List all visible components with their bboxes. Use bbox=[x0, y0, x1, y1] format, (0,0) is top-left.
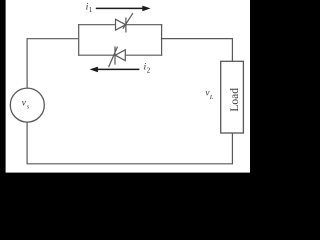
wire: box left edge bbox=[78, 24, 80, 56]
source V1 (vs) bbox=[10, 88, 44, 122]
current arrow i2 bbox=[90, 67, 140, 73]
thyristor T1 (top, conducts left to right) bbox=[116, 13, 133, 32]
wire: top-right horizontal from box to right rail bbox=[162, 38, 233, 40]
svg-text:2: 2 bbox=[147, 68, 151, 75]
load bbox=[221, 61, 244, 133]
white page bbox=[6, 0, 250, 173]
wire: right vertical below load bbox=[231, 133, 233, 164]
wire: bottom rail left of thyristor T2 bbox=[78, 54, 115, 56]
svg-text:1: 1 bbox=[89, 7, 92, 14]
svg-text:Load: Load bbox=[229, 88, 241, 112]
wire: top rail right of thyristor T1 bbox=[126, 24, 162, 26]
current arrow i1 bbox=[96, 6, 151, 12]
wire: right vertical above load bbox=[231, 39, 233, 62]
wire: top rail left of thyristor T1 bbox=[78, 24, 115, 26]
wire: bottom horizontal bbox=[27, 163, 233, 165]
svg-text:L: L bbox=[209, 94, 214, 101]
thyristor T2 (bottom, conducts right to left) bbox=[109, 46, 126, 67]
wire: left vertical (top segment, loop corner to source top) bbox=[27, 39, 79, 88]
wire: bottom rail right of thyristor T2 bbox=[125, 54, 162, 56]
wire: box right edge bbox=[161, 24, 163, 56]
wire: left vertical below source to bottom rail bbox=[26, 122, 28, 164]
